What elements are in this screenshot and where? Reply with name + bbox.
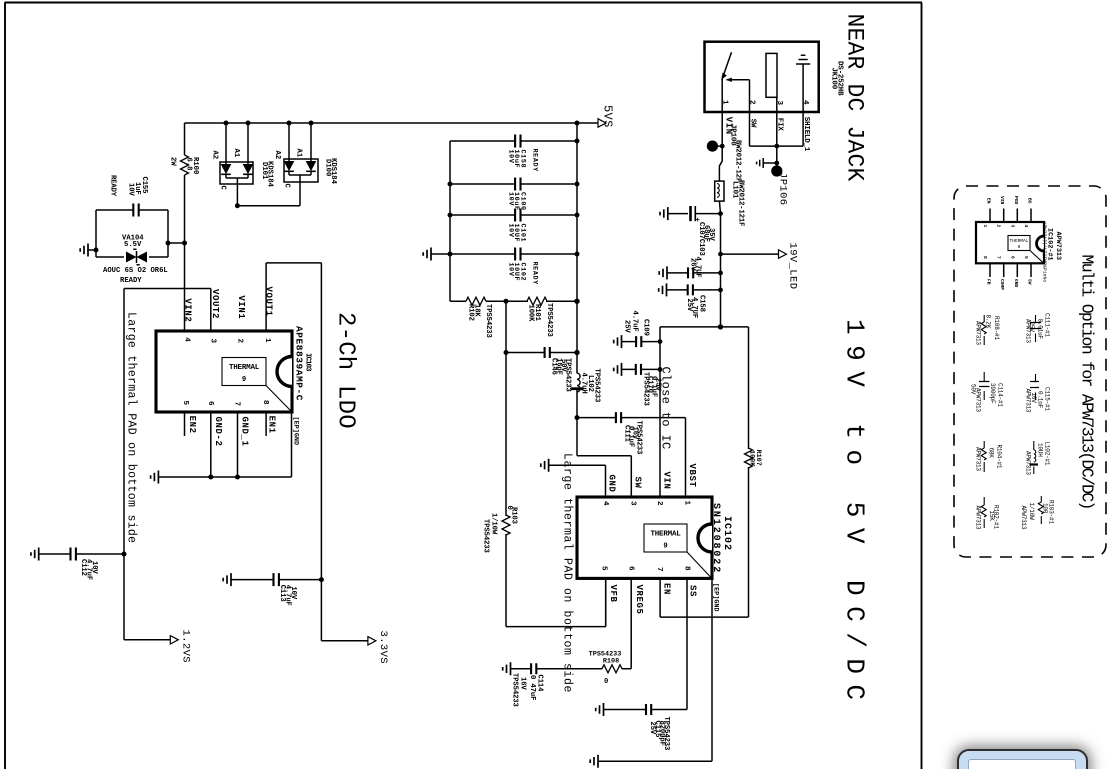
svg-text:APW7313: APW7313 xyxy=(975,447,982,471)
svg-text:35V: 35V xyxy=(707,228,715,241)
svg-text:GND-2: GND-2 xyxy=(213,417,223,447)
svg-text:APW7313(ALT)THR&PinNo: APW7313(ALT)THR&PinNo xyxy=(1042,222,1048,283)
svg-text:C115-#1: C115-#1 xyxy=(1044,387,1051,411)
svg-text:5: 5 xyxy=(600,566,608,571)
svg-text:VOUT1: VOUT1 xyxy=(264,287,274,317)
svg-text:FIX: FIX xyxy=(776,118,784,132)
svg-text:GND: GND xyxy=(1013,279,1019,288)
svg-text:8.2K: 8.2K xyxy=(984,315,991,329)
svg-text:50V: 50V xyxy=(970,384,977,395)
svg-text:VOUT2: VOUT2 xyxy=(210,289,220,319)
svg-text:[EP]GND: [EP]GND xyxy=(712,583,720,612)
svg-text:VBST: VBST xyxy=(687,464,697,488)
svg-text:BW2012-12F: BW2012-12F xyxy=(734,140,742,182)
svg-text:JP106: JP106 xyxy=(777,172,789,206)
svg-text:6: 6 xyxy=(627,566,635,571)
svg-text:TPS54233: TPS54233 xyxy=(482,519,490,553)
svg-text:READY: READY xyxy=(531,149,539,173)
svg-text:R108-#1: R108-#1 xyxy=(993,316,1000,340)
svg-text:3: 3 xyxy=(1009,225,1015,228)
svg-text:IC102: IC102 xyxy=(721,516,732,551)
svg-text:READY: READY xyxy=(531,262,539,286)
svg-text:Multi Option for APW7313(DC/DC: Multi Option for APW7313(DC/DC) xyxy=(1078,255,1097,509)
svg-text:C111-#1: C111-#1 xyxy=(1044,313,1051,337)
svg-text:0: 0 xyxy=(505,506,513,510)
svg-text:4.7uF: 4.7uF xyxy=(631,311,639,332)
svg-text:APW7313: APW7313 xyxy=(975,321,982,345)
svg-text:VREG5: VREG5 xyxy=(634,585,644,615)
svg-text:SHIELD_1: SHIELD_1 xyxy=(802,117,810,152)
svg-text:R100: R100 xyxy=(191,157,199,174)
svg-text:2-Ch LDO: 2-Ch LDO xyxy=(332,312,359,429)
svg-text:VFB: VFB xyxy=(608,585,618,603)
svg-text:9: 9 xyxy=(1018,244,1021,250)
svg-text:0.01uF: 0.01uF xyxy=(1037,319,1044,340)
svg-text:R108: R108 xyxy=(603,658,619,666)
svg-text:R102-#1: R102-#1 xyxy=(992,505,999,529)
svg-text:9: 9 xyxy=(663,543,667,551)
svg-text:GND: GND xyxy=(607,475,617,493)
svg-text:19V to 5V DC/DC: 19V to 5V DC/DC xyxy=(840,319,870,711)
svg-text:A2: A2 xyxy=(273,151,281,160)
svg-text:7: 7 xyxy=(996,256,1002,259)
svg-text:L102-#1: L102-#1 xyxy=(1044,442,1051,466)
svg-text:VIN2: VIN2 xyxy=(182,298,192,322)
svg-text:EN: EN xyxy=(662,583,672,595)
svg-text:R107: R107 xyxy=(754,450,762,466)
svg-text:19V_LED: 19V_LED xyxy=(787,243,799,290)
svg-text:8: 8 xyxy=(683,566,691,571)
svg-text:C102: C102 xyxy=(519,263,527,282)
svg-text:25V: 25V xyxy=(685,299,693,312)
svg-text:1: 1 xyxy=(721,100,729,105)
svg-text:APW7313: APW7313 xyxy=(1024,451,1031,475)
svg-text:3: 3 xyxy=(775,101,783,106)
svg-text:TPS54233: TPS54233 xyxy=(662,717,670,751)
svg-text:2: 2 xyxy=(655,501,663,506)
svg-text:C158: C158 xyxy=(519,150,527,169)
svg-text:1: 1 xyxy=(683,501,691,506)
svg-text:8: 8 xyxy=(261,400,269,405)
svg-text:1: 1 xyxy=(982,225,988,228)
svg-text:KDS184: KDS184 xyxy=(266,161,274,188)
svg-text:APW7313: APW7313 xyxy=(1054,232,1062,261)
svg-text:4: 4 xyxy=(1023,225,1029,228)
svg-text:26V: 26V xyxy=(689,258,697,271)
svg-text:AOUC 6S O2 OR6L: AOUC 6S O2 OR6L xyxy=(103,267,168,275)
svg-text:PGD: PGD xyxy=(1013,196,1019,205)
svg-text:FB: FB xyxy=(986,279,992,285)
svg-text:1/10W: 1/10W xyxy=(490,513,498,535)
svg-text:READY: READY xyxy=(109,175,117,197)
svg-text:18K: 18K xyxy=(473,304,481,317)
svg-text:APE8839AMP-C: APE8839AMP-C xyxy=(294,326,305,401)
svg-text:8: 8 xyxy=(982,256,988,259)
svg-text:16V: 16V xyxy=(519,677,527,690)
svg-text:3: 3 xyxy=(629,501,637,506)
svg-text:10UH: 10UH xyxy=(1037,443,1044,457)
svg-text:6: 6 xyxy=(206,401,214,406)
svg-text:10V: 10V xyxy=(90,561,98,574)
svg-text:4: 4 xyxy=(182,337,190,342)
svg-text:68K: 68K xyxy=(988,448,995,459)
svg-text:0 47uF: 0 47uF xyxy=(528,675,536,700)
svg-text:SS: SS xyxy=(688,585,698,597)
svg-text:SW: SW xyxy=(633,477,643,489)
svg-text:6: 6 xyxy=(1009,256,1015,259)
svg-text:5: 5 xyxy=(1023,256,1029,259)
svg-text:1/10W: 1/10W xyxy=(1028,503,1035,521)
svg-text:Large thermal PAD on bottom si: Large thermal PAD on bottom side xyxy=(125,312,138,543)
svg-text:TPS54233: TPS54233 xyxy=(634,421,642,455)
svg-text:EN: EN xyxy=(986,198,992,204)
svg-text:3900pF: 3900pF xyxy=(989,383,996,404)
svg-text:COMP: COMP xyxy=(999,279,1005,290)
svg-text:GND_1: GND_1 xyxy=(240,417,250,447)
svg-text:R101: R101 xyxy=(533,304,541,322)
svg-text:TPS54233: TPS54233 xyxy=(511,673,519,707)
svg-text:C114-#1: C114-#1 xyxy=(996,383,1003,407)
svg-text:1.2VS: 1.2VS xyxy=(180,630,192,664)
svg-text:C: C xyxy=(283,184,291,189)
svg-text:5.5V: 5.5V xyxy=(124,241,142,249)
svg-text:5: 5 xyxy=(181,401,189,406)
svg-text:THERMAL: THERMAL xyxy=(229,364,260,372)
svg-text:VIN: VIN xyxy=(999,196,1005,205)
svg-text:2: 2 xyxy=(996,225,1002,228)
svg-text:APW7313: APW7313 xyxy=(1020,506,1027,530)
svg-text:C109: C109 xyxy=(642,319,650,336)
svg-text:1: 1 xyxy=(263,338,271,343)
svg-text:Large thermal PAD on bottom si: Large thermal PAD on bottom side xyxy=(561,453,574,693)
svg-text:Close to IC: Close to IC xyxy=(659,367,673,450)
svg-text:C100: C100 xyxy=(519,192,527,211)
svg-text:2W: 2W xyxy=(169,157,177,166)
svg-text:A2: A2 xyxy=(211,151,219,160)
svg-text:3.3VS: 3.3VS xyxy=(377,631,389,665)
svg-text:3: 3 xyxy=(209,339,217,344)
svg-text:TPS54233: TPS54233 xyxy=(564,358,572,392)
svg-text:BS: BS xyxy=(1027,198,1033,204)
svg-text:0.1uF: 0.1uF xyxy=(1037,391,1044,409)
svg-text:THERMAL: THERMAL xyxy=(1010,238,1029,244)
svg-text:NEAR DC JACK: NEAR DC JACK xyxy=(842,14,868,182)
svg-text:4: 4 xyxy=(801,100,809,105)
svg-text:5VS: 5VS xyxy=(601,105,615,128)
svg-text:BW2012-121F: BW2012-121F xyxy=(737,180,745,226)
svg-text:SW: SW xyxy=(749,119,757,128)
svg-text:TPS54233: TPS54233 xyxy=(593,369,601,403)
svg-text:A1: A1 xyxy=(232,149,240,158)
svg-text:SW: SW xyxy=(1027,279,1033,285)
svg-text:KDS184: KDS184 xyxy=(329,158,337,185)
svg-text:1uF: 1uF xyxy=(133,182,141,195)
svg-text:2: 2 xyxy=(748,100,756,105)
svg-text:R103-#1: R103-#1 xyxy=(1047,500,1054,524)
svg-text:C155: C155 xyxy=(140,177,148,194)
svg-text:7: 7 xyxy=(655,567,663,572)
svg-text:C101: C101 xyxy=(519,224,527,243)
svg-text:TPS54233: TPS54233 xyxy=(545,303,553,337)
svg-text:READY: READY xyxy=(120,277,142,285)
svg-text:9: 9 xyxy=(242,376,246,384)
svg-text:TPS54233: TPS54233 xyxy=(484,304,492,338)
svg-text:VIN: VIN xyxy=(662,472,672,490)
svg-text:R104-#1: R104-#1 xyxy=(996,445,1003,469)
svg-text:VIN1: VIN1 xyxy=(236,295,246,319)
svg-text:0: 0 xyxy=(604,678,608,686)
svg-text:EN1: EN1 xyxy=(267,416,277,434)
svg-text:16V: 16V xyxy=(1030,393,1037,404)
svg-text:[EP]GND: [EP]GND xyxy=(292,417,300,446)
svg-text:10V: 10V xyxy=(289,586,297,599)
svg-text:EN2: EN2 xyxy=(187,416,197,434)
svg-text:THERMAL: THERMAL xyxy=(650,531,681,539)
svg-text:SN1208022: SN1208022 xyxy=(710,503,721,574)
svg-text:25V: 25V xyxy=(623,320,631,333)
svg-text:4: 4 xyxy=(601,501,609,506)
svg-text:7: 7 xyxy=(233,402,241,407)
svg-text:25V: 25V xyxy=(1028,322,1035,333)
svg-text:A1: A1 xyxy=(295,149,303,158)
svg-text:2: 2 xyxy=(236,339,244,344)
svg-text:C: C xyxy=(219,186,227,191)
svg-text:APW7313: APW7313 xyxy=(975,506,982,530)
